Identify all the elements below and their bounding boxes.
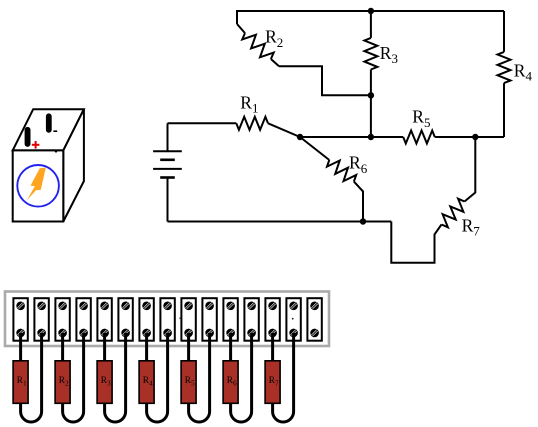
tiny speck mark 2	[179, 317, 181, 319]
terminal block 7	[139, 298, 153, 341]
resistor R5 pictorial	[181, 361, 196, 404]
junction node R3 bottom	[368, 134, 374, 140]
wire R5 right to R4	[435, 136, 504, 138]
terminal block 8	[160, 298, 174, 341]
plus sign	[32, 141, 40, 149]
terminal block 2	[34, 298, 48, 341]
resistor R5	[403, 131, 435, 144]
wire middle net	[300, 136, 403, 138]
resistor R3 pictorial	[97, 361, 112, 404]
lightning bolt	[27, 168, 46, 201]
terminal block 13	[265, 298, 279, 341]
small dot mark	[55, 150, 58, 153]
battery terminal - post	[46, 113, 52, 132]
minus sign	[53, 130, 57, 132]
terminal block 14	[286, 298, 300, 341]
wire jumper resistor R5 leads	[189, 333, 210, 422]
junction node R6 bottom	[360, 218, 366, 224]
wire R2 bottom to node B	[279, 66, 371, 95]
resistor R7	[391, 137, 475, 263]
resistor R4	[498, 11, 511, 137]
resistor R3	[364, 11, 377, 137]
terminal block 1	[13, 298, 27, 341]
battery pictorial: front face	[13, 150, 64, 221]
battery pictorial: top face	[13, 109, 84, 150]
terminal block 5	[97, 298, 111, 341]
junction node R2/R3	[368, 92, 374, 98]
terminal block 9	[181, 298, 195, 341]
resistor R2 pictorial	[55, 361, 70, 404]
terminal block 6	[118, 298, 132, 341]
battery symbol	[153, 123, 182, 221]
wire jumper resistor R4 leads	[147, 333, 168, 422]
terminal strip body	[5, 292, 329, 347]
resistor R2	[237, 24, 279, 66]
wire jumper resistor R3 leads	[105, 333, 126, 422]
battery pictorial: right face	[63, 109, 84, 221]
resistor R6 pictorial	[223, 361, 238, 404]
terminal block 11	[223, 298, 237, 341]
wire bottom net	[168, 221, 392, 223]
wire jumper resistor R6 leads	[231, 333, 252, 422]
battery terminal + post	[25, 127, 31, 147]
junction node R1/R6	[297, 134, 303, 140]
resistor R1 pictorial	[13, 361, 28, 404]
resistor R4 pictorial	[139, 361, 154, 404]
junction node top	[368, 8, 374, 14]
terminal block 4	[76, 298, 90, 341]
wire top net	[237, 11, 504, 24]
wire jumper resistor R1 leads	[21, 333, 42, 422]
terminal block 10	[202, 298, 216, 341]
terminal block 15	[307, 298, 321, 341]
wire jumper resistor R2 leads	[63, 333, 84, 422]
resistor R1	[168, 117, 301, 137]
wire jumper resistor R7 leads	[273, 333, 294, 422]
resistor R6	[300, 137, 363, 222]
resistor R7 pictorial	[265, 361, 280, 404]
junction node R5/R7	[472, 134, 478, 140]
blue circle emblem	[17, 165, 59, 207]
terminal block 3	[55, 298, 69, 341]
tiny speck mark	[292, 318, 294, 320]
terminal block 12	[244, 298, 258, 341]
